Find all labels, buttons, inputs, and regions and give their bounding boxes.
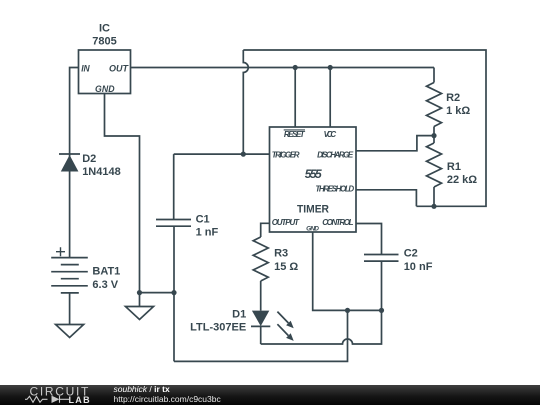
svg-text:1 kΩ: 1 kΩ [446, 105, 470, 117]
svg-text:1 nF: 1 nF [196, 226, 219, 238]
svg-text:C1: C1 [196, 213, 210, 225]
svg-text:DISCHARGE: DISCHARGE [317, 151, 354, 160]
svg-text:GND: GND [95, 84, 115, 95]
svg-text:6.3 V: 6.3 V [92, 279, 118, 291]
svg-text:VCC: VCC [324, 130, 337, 139]
svg-text:TRIGGER: TRIGGER [272, 151, 300, 160]
svg-text:OUTPUT: OUTPUT [272, 218, 300, 227]
svg-text:LAB: LAB [69, 395, 91, 405]
svg-text:LTL-307EE: LTL-307EE [190, 322, 246, 334]
svg-text:15 Ω: 15 Ω [274, 261, 298, 273]
svg-text:7805: 7805 [92, 36, 116, 48]
svg-text:R2: R2 [446, 92, 460, 104]
svg-text:C2: C2 [404, 248, 418, 260]
svg-text:TIMER: TIMER [297, 203, 329, 215]
svg-text:R3: R3 [274, 248, 288, 260]
svg-text:CONTROL: CONTROL [322, 218, 353, 227]
svg-text:D2: D2 [82, 153, 96, 165]
svg-text:555: 555 [305, 167, 322, 181]
svg-text:OUT: OUT [109, 63, 129, 74]
svg-text:1N4148: 1N4148 [82, 166, 121, 178]
svg-text:IC: IC [99, 23, 110, 35]
svg-text:R1: R1 [447, 161, 461, 173]
svg-text:D1: D1 [232, 309, 246, 321]
svg-text:RESET: RESET [284, 130, 306, 139]
svg-text:THRESHOLD: THRESHOLD [315, 184, 354, 193]
svg-text:IN: IN [81, 63, 91, 74]
svg-text:22 kΩ: 22 kΩ [447, 174, 477, 186]
svg-text:10 nF: 10 nF [404, 261, 433, 273]
svg-text:BAT1: BAT1 [92, 266, 120, 278]
svg-text:GND: GND [306, 226, 319, 233]
